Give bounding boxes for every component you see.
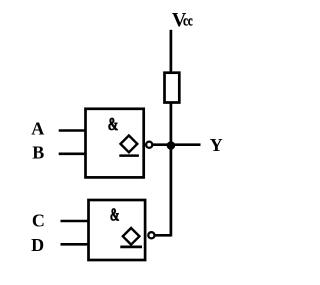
NAND gate U2 body [89, 200, 146, 260]
svg-text:&: & [108, 114, 119, 134]
svg-text:cc: cc [183, 14, 193, 30]
power Vcc label [172, 9, 193, 31]
open-collector diamond symbol U1 [119, 136, 139, 156]
svg-text:Y: Y [210, 135, 223, 155]
svg-text:C: C [32, 211, 45, 231]
wire gate U1 output through node Y to label [153, 143, 201, 146]
wire gate U2 output to vertical bus [155, 234, 171, 237]
open-collector diamond symbol U2 [120, 228, 142, 247]
wire input B [59, 153, 86, 156]
wire Vcc to resistor R1 [170, 30, 173, 73]
svg-text:B: B [32, 142, 44, 162]
wire input A [59, 129, 86, 132]
svg-text:&: & [110, 204, 120, 224]
inversion bubble U1 [146, 142, 152, 148]
svg-text:D: D [31, 235, 44, 255]
junction node Y dot [167, 141, 176, 150]
inversion bubble U2 [148, 232, 154, 238]
svg-text:A: A [31, 118, 44, 138]
wire resistor R1 to node Y and down to gate U2 output [170, 103, 173, 237]
NAND gate U1 body [86, 109, 144, 178]
wire input C [61, 220, 90, 223]
wire input D [61, 243, 90, 246]
resistor R1 pull-up [165, 73, 180, 103]
